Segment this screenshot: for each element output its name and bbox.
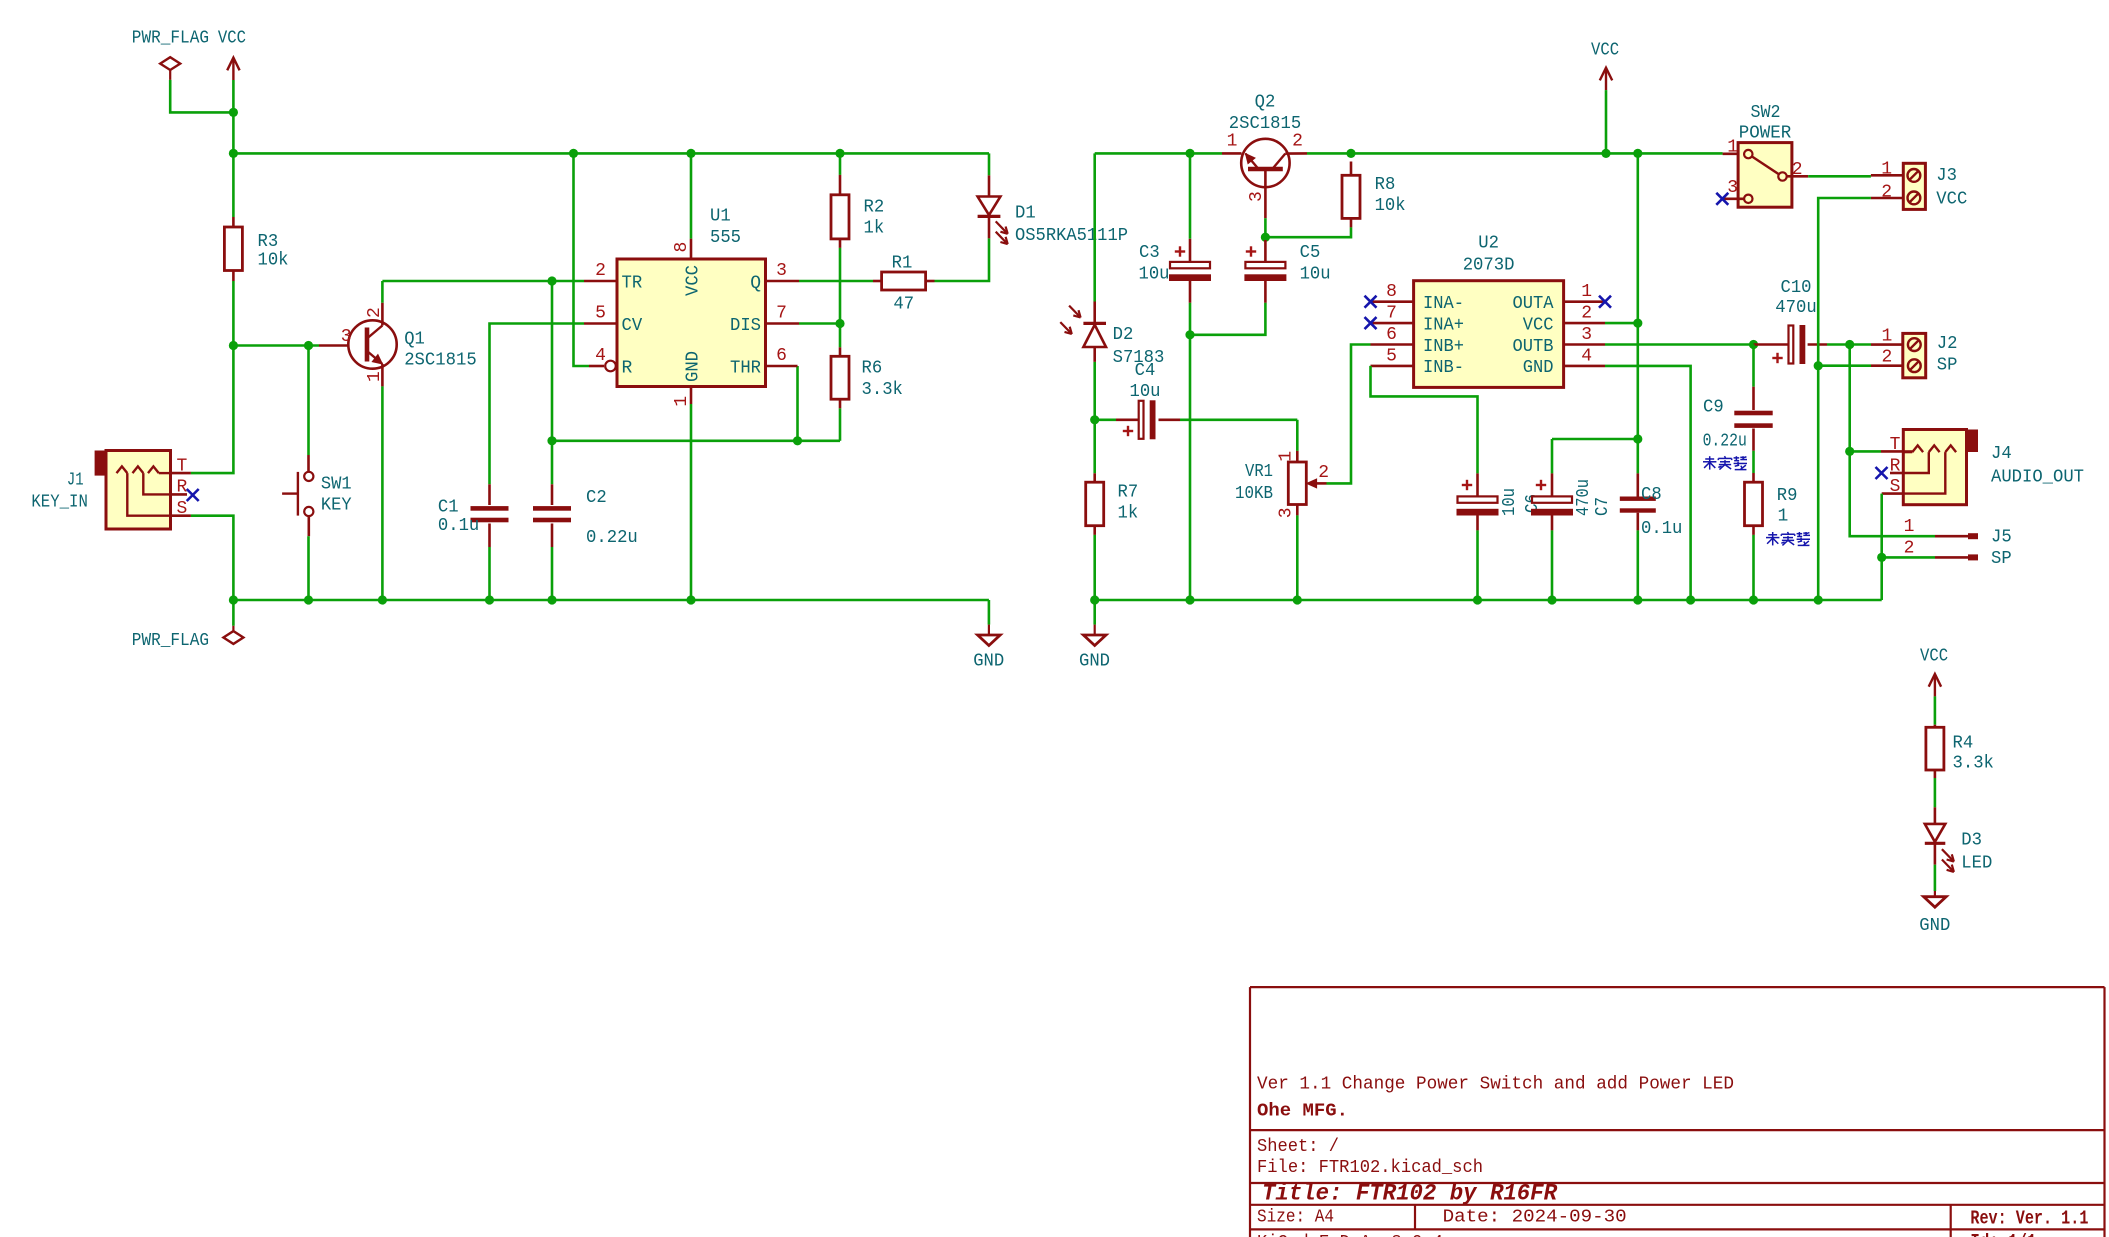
resistor R9 1 (not fitted) (1752, 473, 1755, 482)
power symbol VCC (right rail) (1605, 68, 1607, 90)
svg-text:3: 3 (341, 327, 352, 347)
wire C3 ground drop (1189, 335, 1192, 600)
label not-fitted C9 (1705, 458, 1714, 460)
led D3 LED (1934, 807, 1937, 824)
wire Q2 base node (1264, 218, 1267, 240)
svg-text:1: 1 (1881, 159, 1892, 179)
svg-text:R8: R8 (1375, 175, 1396, 195)
wire R1 to D1 (935, 238, 990, 281)
resistor R3 10k (232, 217, 235, 227)
svg-text:INB+: INB+ (1423, 337, 1464, 357)
wire R6 bottom leg (839, 408, 842, 441)
transistor Q1 2SC1815 (319, 344, 349, 347)
svg-text:2: 2 (1881, 348, 1892, 368)
svg-text:R: R (177, 478, 188, 498)
svg-text:U1: U1 (710, 206, 731, 226)
ground bus left section (233, 599, 989, 602)
svg-text:8: 8 (1386, 282, 1397, 302)
svg-text:1k: 1k (1118, 504, 1139, 524)
svg-text:3: 3 (1727, 178, 1738, 198)
svg-text:R6: R6 (862, 358, 883, 378)
junction (1749, 595, 1758, 604)
svg-text:2: 2 (1318, 463, 1329, 483)
connector J4 AUDIO_OUT (1966, 430, 1978, 453)
ground symbol GND (right) (1093, 600, 1096, 625)
svg-text:10u: 10u (1139, 265, 1170, 285)
svg-text:2: 2 (1881, 182, 1892, 202)
junction (1090, 595, 1099, 604)
ground symbol GND (indicator) (1934, 891, 1936, 897)
svg-text:470u: 470u (1775, 298, 1816, 318)
wire J2 pin2 net to ground bus (1817, 366, 1820, 600)
svg-text:7: 7 (776, 304, 787, 324)
svg-text:3.3k: 3.3k (1953, 753, 1994, 773)
svg-text:C5: C5 (1300, 243, 1321, 263)
svg-text:R2: R2 (864, 197, 885, 217)
svg-text:D2: D2 (1113, 325, 1134, 345)
wire U2 GND pin routing (1605, 366, 1691, 600)
junction SW1 tap (304, 341, 313, 350)
pin 3 OUTB (1564, 343, 1605, 346)
led D1 OS5RKA5111P (988, 216, 991, 238)
svg-text:2: 2 (1904, 539, 1915, 559)
pin 7 DIS (766, 322, 800, 325)
svg-text:1k: 1k (864, 219, 885, 239)
svg-text:R9: R9 (1777, 486, 1798, 506)
junction (1293, 595, 1302, 604)
svg-text:10u: 10u (1130, 382, 1161, 402)
svg-text:SP: SP (1937, 356, 1958, 376)
svg-text:10k: 10k (1375, 196, 1406, 216)
wire PWR_FLAG to VCC node (170, 80, 233, 113)
no-connect X INA+ (1365, 317, 1377, 329)
pin 4 R with bubble (589, 365, 604, 368)
wire TR-THR horizontal link (552, 439, 840, 442)
svg-text:5: 5 (595, 304, 606, 324)
capacitor C2 0.22u (551, 281, 554, 484)
svg-text:KEY_IN: KEY_IN (31, 493, 88, 513)
svg-text:4: 4 (1581, 346, 1592, 366)
svg-text:VCC: VCC (1920, 647, 1948, 667)
svg-text:J2: J2 (1937, 334, 1958, 354)
svg-text:10u: 10u (1300, 265, 1331, 285)
junction (229, 108, 238, 117)
svg-text:R: R (1890, 457, 1901, 477)
svg-text:Size: A4: Size: A4 (1257, 1207, 1334, 1227)
svg-text:1: 1 (1581, 282, 1592, 302)
junction (1473, 595, 1482, 604)
no-connect X INA- (1365, 296, 1377, 308)
wire Q output (799, 280, 873, 283)
ic U1 555 (617, 259, 766, 387)
switch SW1 KEY (307, 346, 310, 456)
pin 8 VCC (690, 153, 693, 238)
svg-text:OUTB: OUTB (1513, 337, 1554, 357)
junction (1633, 595, 1642, 604)
wire J4 tip net down to J5 pin1 (1850, 451, 1935, 536)
wire OUTB net down to J4 tip (1848, 345, 1851, 452)
power flag PWR_FLAG (top) (160, 57, 180, 70)
svg-text:Id: 1/1: Id: 1/1 (1970, 1231, 2036, 1237)
connector J5 SP pin2 (1882, 556, 1935, 559)
svg-text:GND: GND (1523, 358, 1554, 378)
junction (547, 436, 556, 445)
svg-text:0.1u: 0.1u (438, 516, 479, 536)
junction (1845, 340, 1854, 349)
junction (1845, 447, 1854, 456)
junction THR tap (793, 436, 802, 445)
svg-text:OUTA: OUTA (1513, 294, 1554, 314)
title block frame (1250, 986, 2105, 988)
no-connect X OUTA (1599, 296, 1611, 308)
junction (1547, 595, 1556, 604)
junction (1814, 361, 1823, 370)
svg-text:GND: GND (683, 351, 703, 382)
svg-text:1: 1 (1881, 327, 1892, 347)
svg-text:POWER: POWER (1739, 123, 1792, 143)
svg-text:INB-: INB- (1423, 358, 1464, 378)
ground bus right section (1095, 599, 1882, 602)
wire INB- to C6 (1371, 366, 1478, 474)
svg-text:VCC: VCC (1523, 315, 1554, 335)
svg-text:C1: C1 (438, 498, 459, 518)
wire C10 to J2 (1850, 343, 1871, 346)
svg-text:3: 3 (776, 261, 787, 281)
svg-text:CV: CV (622, 316, 643, 336)
junction (1185, 149, 1194, 158)
capacitor C6 10u (polarized) (1476, 473, 1479, 496)
svg-text:Q1: Q1 (404, 329, 425, 349)
wire VR1 wiper to INB+ (1327, 345, 1371, 484)
svg-text:2SC1815: 2SC1815 (404, 350, 477, 370)
resistor R8 10k (1350, 162, 1353, 176)
svg-text:Rev: Ver. 1.1: Rev: Ver. 1.1 (1970, 1208, 2088, 1230)
capacitor C9 0.22u (not fitted) (1752, 345, 1755, 387)
junction (835, 149, 844, 158)
pin 5 CV (584, 322, 617, 325)
wire VCC stem right (1605, 90, 1608, 153)
svg-text:J5: J5 (1991, 528, 2012, 548)
label not-fitted R9 (1768, 534, 1777, 536)
svg-text:1: 1 (1227, 132, 1238, 152)
svg-text:1: 1 (672, 396, 692, 407)
svg-text:1: 1 (365, 371, 385, 382)
svg-text:VCC: VCC (218, 28, 246, 48)
pin 6 INB+ (1371, 343, 1414, 346)
svg-text:PWR_FLAG: PWR_FLAG (132, 631, 209, 651)
svg-text:47: 47 (893, 295, 914, 315)
svg-text:3.3k: 3.3k (862, 380, 903, 400)
title block row line 4 (1250, 1228, 2105, 1230)
svg-text:R7: R7 (1118, 483, 1139, 503)
svg-text:C9: C9 (1703, 398, 1724, 418)
wire D3 to GND (1934, 865, 1937, 891)
svg-text:DIS: DIS (730, 316, 761, 336)
svg-text:C10: C10 (1781, 278, 1812, 298)
svg-text:S: S (177, 499, 188, 519)
svg-text:Date: 2024-09-30: Date: 2024-09-30 (1443, 1207, 1627, 1227)
capacitor C4 10u (polarized, horizontal) (1095, 418, 1116, 421)
wire THR pin drop (796, 366, 799, 441)
junction (547, 595, 556, 604)
svg-text:OS5RKA5111P: OS5RKA5111P (1015, 226, 1128, 246)
svg-text:4: 4 (595, 346, 606, 366)
no-connect X SW2 pin3 (1716, 193, 1728, 205)
wire VCC stem (232, 80, 235, 153)
wire Q1 emitter down (381, 386, 384, 600)
wire VCC rail down to R3 (232, 153, 235, 217)
switch SW2 POWER (1721, 152, 1724, 155)
connector J1 KEY_IN (95, 451, 106, 476)
svg-text:GND: GND (1919, 916, 1950, 936)
svg-text:S: S (1890, 477, 1901, 497)
wire VCC vertical (rail to C8) (1637, 153, 1640, 439)
svg-text:10KB: 10KB (1235, 484, 1273, 504)
junction C3/C5 ground link (1185, 330, 1194, 339)
no-connect X on J1 ring (187, 489, 199, 501)
pin 1 GND (690, 387, 693, 405)
pin 2 VCC (1564, 322, 1605, 325)
wire base node to Q1 (233, 344, 319, 347)
wire J1 sleeve to ground (191, 516, 234, 600)
capacitor C3 10u (polarized) (1189, 153, 1192, 238)
pin 2 TR (584, 280, 617, 283)
svg-text:D1: D1 (1015, 204, 1036, 224)
svg-text:LED: LED (1961, 853, 1992, 873)
svg-text:SP: SP (1991, 549, 2012, 569)
wire C7 to VCC vertical (1552, 438, 1638, 441)
wire reset pin to VCC rail (574, 153, 590, 366)
svg-text:C4: C4 (1135, 361, 1156, 381)
wire J4 tip (1850, 450, 1881, 453)
ground symbol GND (left) (988, 600, 991, 625)
junction (485, 595, 494, 604)
svg-text:KEY: KEY (321, 496, 352, 516)
svg-text:Ver 1.1 Change Power Switch an: Ver 1.1 Change Power Switch and add Powe… (1257, 1074, 1734, 1094)
svg-text:C3: C3 (1139, 243, 1160, 263)
svg-text:J1: J1 (67, 471, 84, 491)
svg-text:10k: 10k (258, 251, 289, 271)
svg-text:0.1u: 0.1u (1641, 519, 1682, 539)
title block row line 3 (1250, 1204, 2105, 1206)
resistor R1 47 (873, 280, 882, 283)
svg-text:7: 7 (1386, 304, 1397, 324)
title block divider bottom row (1950, 1229, 1952, 1237)
svg-text:470u: 470u (1574, 479, 1594, 516)
junction TR-THR link (547, 276, 556, 285)
wire SW2 to J3 pin1 (1808, 175, 1871, 178)
svg-text:2: 2 (1581, 304, 1592, 324)
wire Q1 collector up (381, 281, 384, 303)
connector J3 VCC (1871, 174, 1903, 177)
wire U2 VCC pin to rail (1605, 322, 1638, 325)
svg-text:SW1: SW1 (321, 475, 352, 495)
transistor Q2 2SC1815 (1222, 152, 1242, 155)
title block divider Size/Date (1414, 1205, 1416, 1230)
capacitor C1 0.1u (490, 324, 585, 485)
wire TR net Q1 to U1 (382, 280, 584, 283)
junction (569, 149, 578, 158)
junction (1633, 319, 1642, 328)
svg-text:D3: D3 (1961, 831, 1982, 851)
wire top rail left section (233, 152, 989, 155)
junction (1601, 149, 1610, 158)
wire top rail right section (right part) (1307, 152, 1723, 155)
pin 6 THR (766, 365, 798, 368)
svg-text:2: 2 (1292, 132, 1303, 152)
resistor R7 1k (1093, 420, 1096, 474)
wire R4 to D3 (1934, 778, 1937, 807)
svg-text:R: R (622, 358, 633, 378)
svg-text:555: 555 (710, 228, 741, 248)
title block divider Rev (1950, 1205, 1952, 1230)
wire J1 tip to base node (191, 346, 234, 474)
svg-text:1: 1 (1778, 507, 1789, 527)
svg-text:C2: C2 (586, 488, 607, 508)
pin 5 INB- (1371, 365, 1414, 368)
capacitor C8 0.1u (1637, 439, 1640, 473)
svg-text:KiCad E.D.A. 8.0.4: KiCad E.D.A. 8.0.4 (1257, 1233, 1443, 1237)
svg-text:C7: C7 (1593, 497, 1613, 516)
resistor R6 3.3k (839, 324, 842, 348)
svg-text:2: 2 (365, 307, 385, 318)
svg-text:C8: C8 (1641, 485, 1662, 505)
resistor R4 3.3k (1934, 725, 1937, 728)
svg-text:J3: J3 (1936, 166, 1957, 186)
wire R3 to base node (232, 281, 235, 346)
svg-text:0.22u: 0.22u (1703, 431, 1747, 451)
pin 3 Q (766, 280, 800, 283)
potentiometer VR1 10KB (1296, 420, 1299, 451)
svg-text:3: 3 (1247, 191, 1267, 202)
power flag PWR_FLAG (bottom) (232, 600, 235, 626)
junction (229, 149, 238, 158)
svg-text:R4: R4 (1953, 733, 1974, 753)
svg-text:T: T (1890, 435, 1901, 455)
svg-text:1: 1 (1277, 451, 1297, 462)
svg-text:GND: GND (1079, 652, 1110, 672)
svg-text:AUDIO_OUT: AUDIO_OUT (1991, 468, 2084, 488)
svg-text:0.22u: 0.22u (586, 528, 638, 548)
wire top rail right section (left part) (1095, 152, 1222, 155)
svg-text:3: 3 (1581, 325, 1592, 345)
junction base node (229, 341, 238, 350)
svg-text:3: 3 (1277, 507, 1297, 518)
svg-text:5: 5 (1386, 346, 1397, 366)
svg-text:U2: U2 (1478, 234, 1499, 254)
capacitor C10 470u (polarized, horizontal) (1754, 343, 1789, 346)
svg-text:GND: GND (973, 652, 1004, 672)
wire DIS to R2/R6 node (799, 322, 840, 325)
junction (1185, 595, 1194, 604)
svg-text:Sheet: /: Sheet: / (1257, 1137, 1339, 1157)
junction (1633, 149, 1642, 158)
connector J2 SP (1871, 343, 1903, 346)
pin 4 GND (1564, 365, 1605, 368)
ic U2 2073D (1414, 281, 1564, 388)
svg-text:PWR_FLAG: PWR_FLAG (132, 28, 209, 48)
wire OUTB to C10 (1605, 343, 1754, 346)
junction (686, 595, 695, 604)
junction (1686, 595, 1695, 604)
svg-text:R3: R3 (258, 232, 279, 252)
svg-text:VCC: VCC (683, 265, 703, 296)
svg-text:Title: FTR102 by R16FR: Title: FTR102 by R16FR (1262, 1181, 1557, 1207)
svg-text:INA+: INA+ (1423, 315, 1464, 335)
power symbol VCC (indicator) (1934, 674, 1936, 696)
junction (229, 595, 238, 604)
svg-text:R1: R1 (892, 253, 913, 273)
svg-text:T: T (177, 456, 188, 476)
svg-text:TR: TR (622, 273, 643, 293)
junction Q2 base / R8 / C5 (1261, 233, 1270, 242)
resistor R2 1k (839, 153, 842, 175)
svg-text:File: FTR102.kicad_sch: File: FTR102.kicad_sch (1257, 1158, 1483, 1178)
pin 8 INA- (1371, 300, 1414, 303)
connector J5 SP pin1 (1935, 535, 1968, 538)
svg-text:1: 1 (1904, 517, 1915, 537)
junction (1814, 595, 1823, 604)
pin 1 OUTA (1564, 300, 1605, 303)
svg-text:J4: J4 (1991, 444, 2012, 464)
wire J3 pin2 down to J2 pin2 (1818, 198, 1871, 366)
junction (1877, 553, 1886, 562)
wire J4 sleeve to ground bus (1880, 494, 1883, 600)
junction (1633, 434, 1642, 443)
junction D2/R7/C4 node (1090, 415, 1099, 424)
svg-text:Q2: Q2 (1255, 93, 1276, 113)
no-connect X J4 ring (1876, 467, 1888, 479)
capacitor C7 470u (polarized) (1551, 439, 1554, 473)
junction (1749, 340, 1758, 349)
svg-text:INA-: INA- (1423, 294, 1464, 314)
wire VCC to R4 (1934, 696, 1937, 724)
svg-text:VCC: VCC (1936, 189, 1967, 209)
photodiode D2 S7183 (1093, 153, 1096, 301)
svg-text:10u: 10u (1500, 488, 1520, 516)
junction (835, 319, 844, 328)
svg-text:1: 1 (1727, 138, 1738, 158)
svg-text:2: 2 (1792, 160, 1803, 180)
svg-text:SW2: SW2 (1751, 103, 1781, 123)
svg-text:Ohe MFG.: Ohe MFG. (1257, 1101, 1348, 1122)
power symbol VCC (top left) (232, 58, 234, 80)
svg-text:VCC: VCC (1591, 41, 1619, 61)
svg-text:2: 2 (595, 261, 606, 281)
svg-text:2073D: 2073D (1463, 256, 1515, 276)
title block row line 2 (1250, 1182, 2105, 1184)
svg-text:6: 6 (1386, 325, 1397, 345)
title block row line 1 (1250, 1129, 2105, 1131)
svg-text:8: 8 (672, 242, 692, 253)
junction (686, 149, 695, 158)
svg-text:6: 6 (776, 346, 787, 366)
junction (1346, 149, 1355, 158)
pin 7 INA+ (1371, 322, 1414, 325)
svg-text:THR: THR (730, 358, 761, 378)
capacitor C5 10u (polarized) (1264, 240, 1267, 262)
svg-text:2SC1815: 2SC1815 (1229, 114, 1302, 134)
junction (378, 595, 387, 604)
junction (304, 595, 313, 604)
svg-text:Q: Q (750, 273, 761, 293)
svg-text:VR1: VR1 (1245, 462, 1273, 482)
